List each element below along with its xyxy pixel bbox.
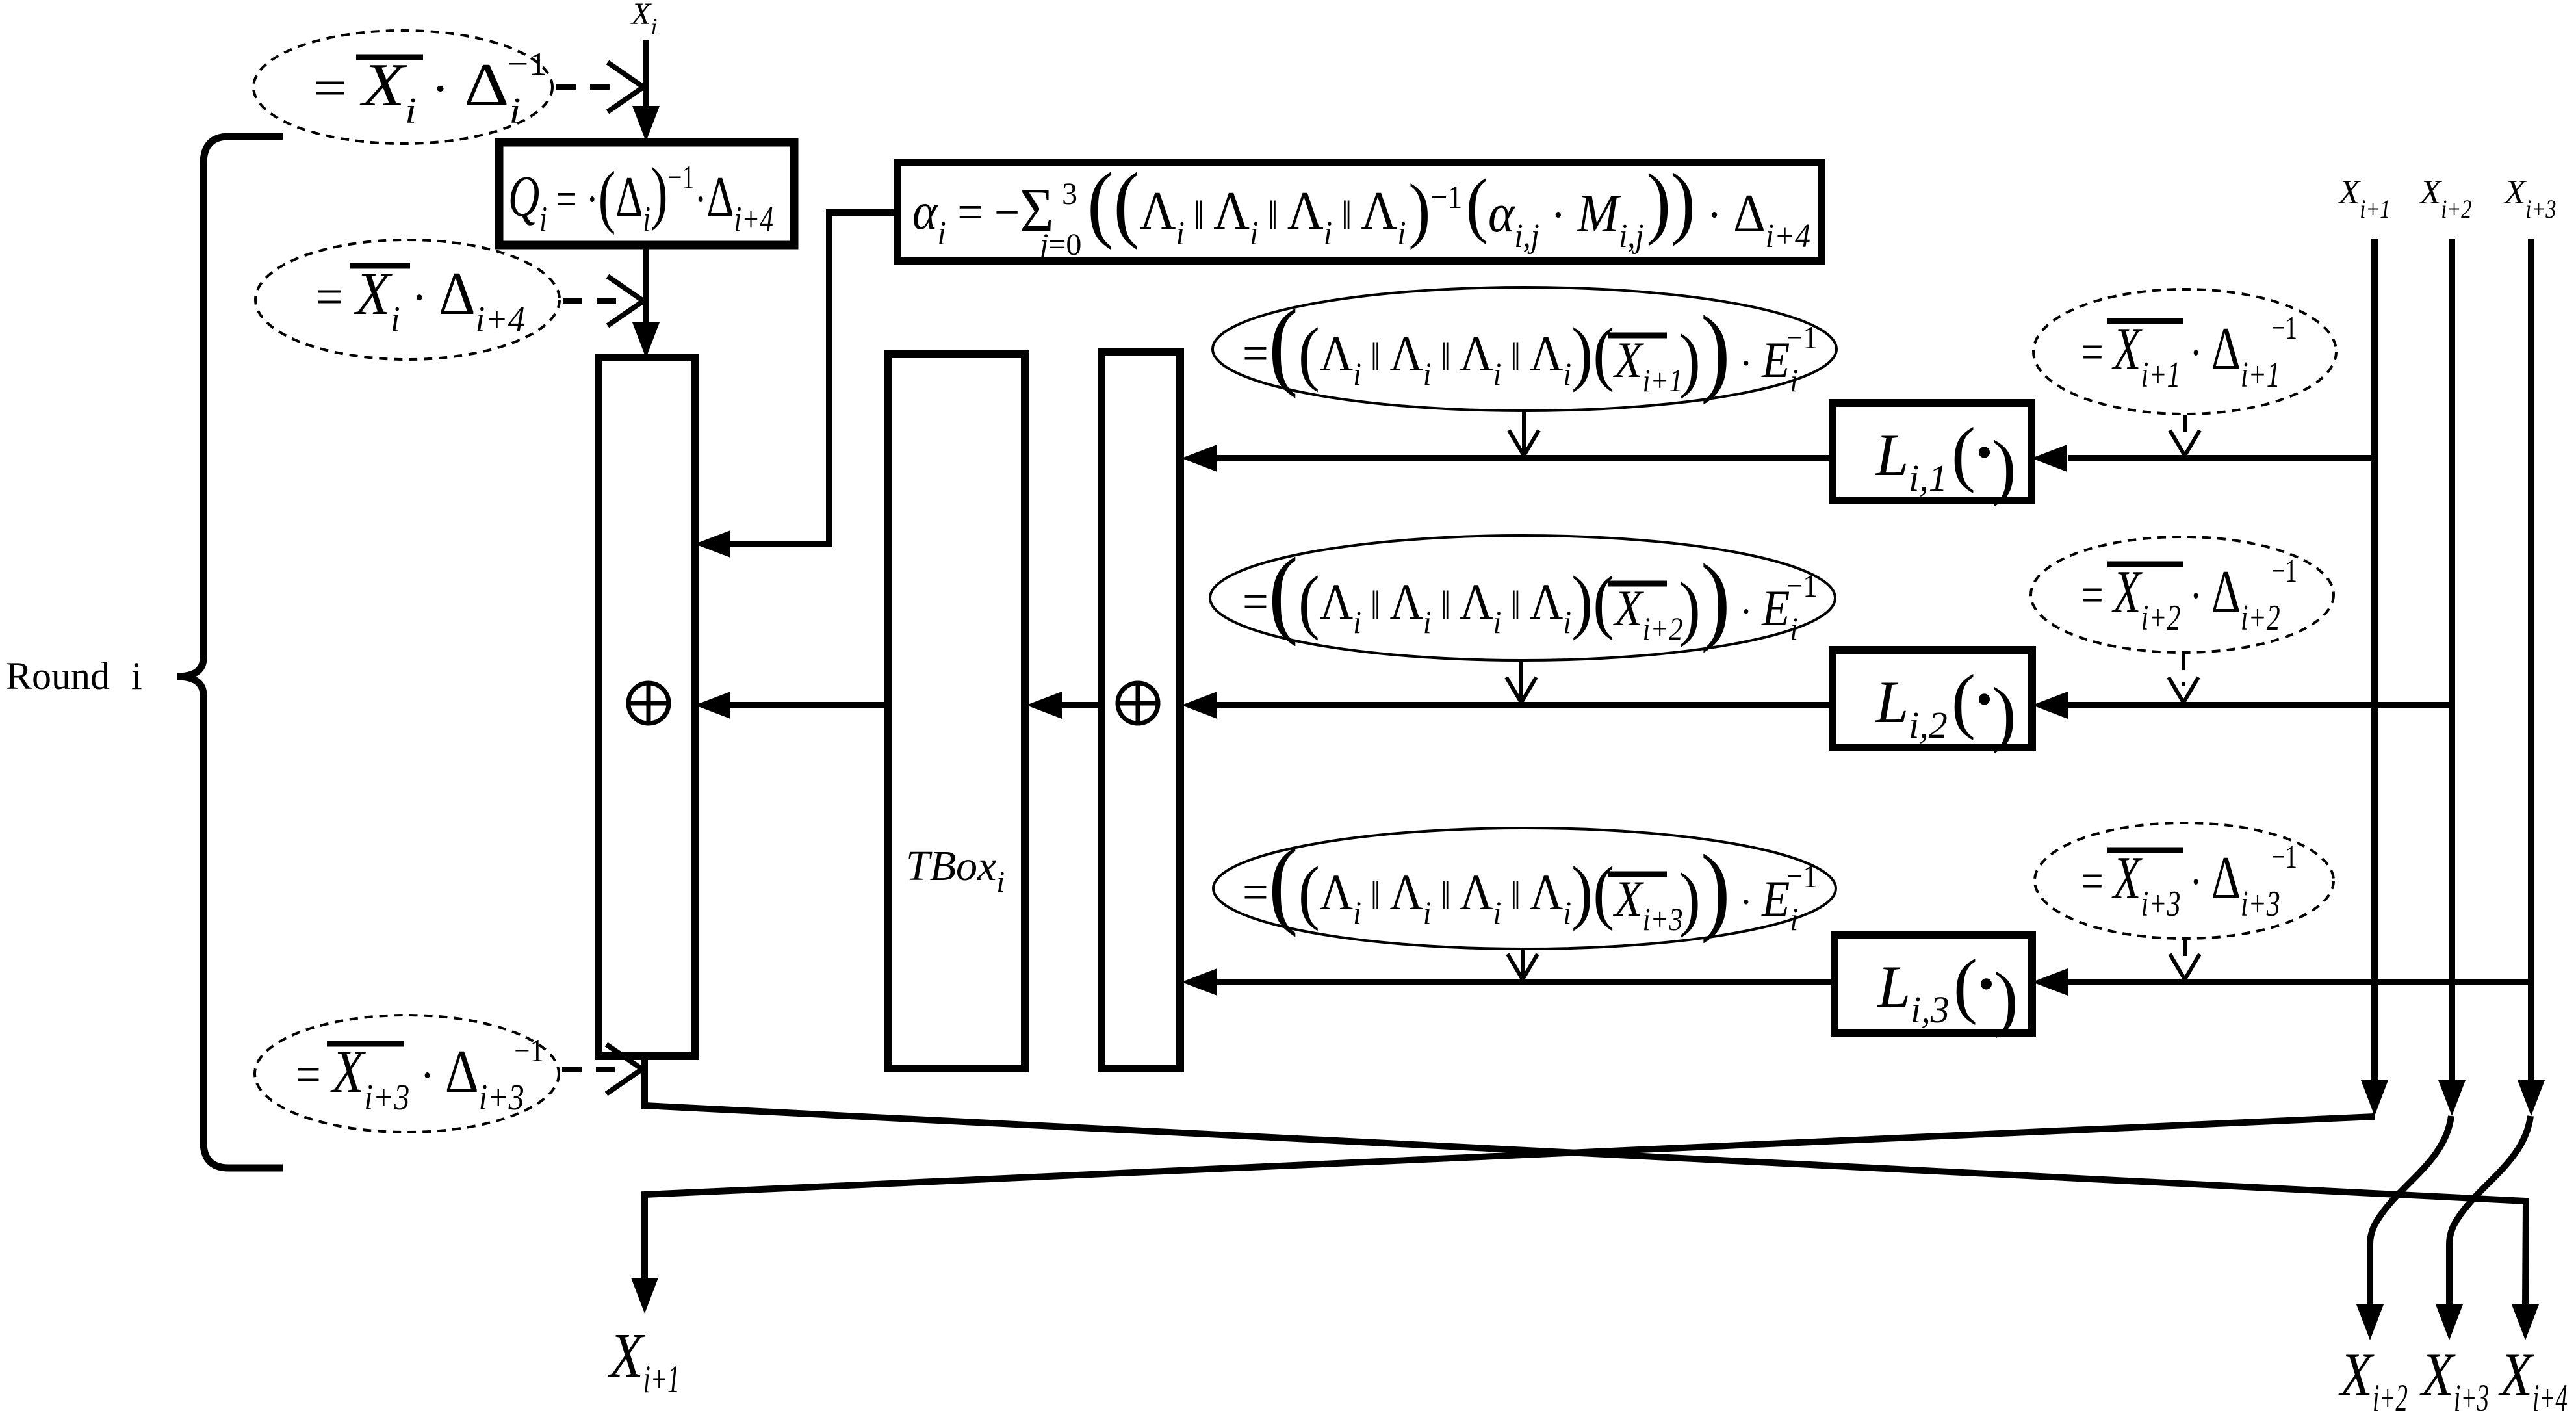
wire curve X_i+2 line to output <box>2370 1116 2451 1306</box>
XOR column 1 (left tall rectangle) <box>599 357 695 1056</box>
overline X in dashed right ellipse3 <box>2107 848 2183 853</box>
arrowhead X_i+3 vertical end <box>2518 1080 2545 1116</box>
dashed arrow left-ellipse2 to wire below Q <box>563 298 619 304</box>
wire curve X_i+3 line to output <box>2449 1116 2531 1306</box>
wire long diagonal XOR1 output to X_i+4 <box>645 1106 2526 1306</box>
arrowhead row3 into XOR2 <box>1181 968 1217 996</box>
small dashed arrow right-ellipse1 to row1 <box>2169 415 2200 979</box>
box L_i,3 <box>1835 935 2032 1033</box>
TBox_i (middle tall rectangle) <box>888 354 1025 1068</box>
small dashed arrow right-ellipse2 to row2 <box>2182 653 2185 686</box>
overline X in solid ellipse2 <box>1608 581 1667 587</box>
dashed arrow left-ellipse1 to X_i wire <box>556 62 643 1094</box>
wire Q box to XOR column 1 <box>643 245 649 325</box>
arrowhead X_i+2 vertical end <box>2438 1080 2466 1116</box>
svg-text:3: 3 <box>1062 177 1077 211</box>
overline X in dashed right ellipse1 <box>2107 318 2183 324</box>
dashed ellipse right 3 <box>2035 823 2334 939</box>
curly brace Round i <box>177 136 283 1168</box>
dashed ellipse left 3 <box>255 1015 559 1132</box>
small arrow solid-ellipse2 to row2 <box>1519 661 1523 701</box>
arrowhead row2 into L_i,2 <box>2032 692 2068 719</box>
dashed ellipse left 1 <box>253 31 552 144</box>
arrowhead row2 into XOR2 <box>1181 692 1217 719</box>
XOR symbol 2 (circle-plus in column 2) <box>1118 683 1158 723</box>
overline X in dashed right ellipse2 <box>2107 562 2183 567</box>
overline X in dashed left ellipse3 <box>327 1041 404 1047</box>
arrowhead X_i into Q box <box>632 106 660 142</box>
overline X in solid ellipse3 <box>1608 872 1667 877</box>
box alpha_i (annotation box) <box>897 162 1822 261</box>
arrowhead TBox into XOR1 <box>695 692 730 719</box>
arrowhead XOR2 into TBox <box>1026 692 1062 719</box>
dashed ellipse left 2 <box>255 240 560 359</box>
small dashed arrow right-ellipse3 to row3 <box>2183 939 2187 962</box>
box L_i,2 <box>1833 650 2032 747</box>
arrowhead row1 into XOR2 <box>1181 445 1217 472</box>
wire row3 X_i+3 line to L_i,3 <box>2068 979 2531 985</box>
small arrow solid-ellipse1 to row1 <box>1506 411 1539 979</box>
arrowhead alpha elbow into XOR1 <box>695 530 730 558</box>
arrowhead row3 into L_i,3 <box>2032 968 2068 996</box>
solid ellipse row3 annotation <box>1213 828 1836 949</box>
arrowhead Q box into XOR1 <box>632 322 660 358</box>
arrowhead X_i+1 vertical end <box>2361 1080 2388 1116</box>
XOR symbol 1 (circle-plus in column 1) <box>628 683 669 723</box>
dashed ellipse right 2 <box>2031 537 2334 653</box>
wire row3 L_i,3 to XOR2 <box>1216 979 1835 985</box>
wire X_i input down to Q box <box>643 40 649 110</box>
arrowhead output X_i+1 bottom-left <box>631 1278 658 1314</box>
overline X in dashed left ellipse1 <box>356 55 423 60</box>
arrowhead output X_i+2 <box>2356 1304 2384 1340</box>
wire row2 X_i+2 line to L_i,2 <box>2068 702 2452 708</box>
wire row1 L_i,1 to XOR2 <box>1216 455 1833 461</box>
wire elbow from alpha box into XOR column 1 <box>730 213 897 544</box>
svg-text:j=0: j=0 <box>1036 227 1081 262</box>
overline X in solid ellipse1 <box>1608 333 1667 339</box>
wire row2 L_i,2 to XOR2 <box>1216 702 1833 708</box>
box L_i,1 <box>1833 403 2031 500</box>
wire TBox to XOR1 row2 <box>730 702 888 708</box>
overline X in dashed left ellipse2 <box>350 263 410 269</box>
wire long diagonal X_i+1 line to bottom-left output <box>645 1117 2375 1279</box>
wire vertical X_i+2 <box>2449 239 2455 1082</box>
OVERLINES <box>327 57 2183 1044</box>
solid ellipse row2 annotation <box>1210 536 1835 660</box>
wire XOR2 to TBox row2 <box>1062 702 1101 708</box>
wire vertical X_i+1 <box>2371 239 2378 1082</box>
arrowhead output X_i+3 <box>2436 1304 2463 1340</box>
arrowhead row1 into L_i,1 <box>2031 445 2067 472</box>
XOR column 2 (right tall rectangle) <box>1101 352 1180 1068</box>
dashed arrow left-ellipse3 to stub below XOR1 <box>562 1067 617 1072</box>
small arrow solid-ellipse3 to row3 <box>1521 950 1525 977</box>
wire stub below XOR1 <box>641 1055 648 1109</box>
wire row1 X_i+1 line to L_i,1 <box>2068 455 2375 461</box>
arrowhead output X_i+4 <box>2512 1304 2539 1340</box>
dashed ellipse right 1 <box>2033 289 2336 414</box>
box Q_i (annotation box) <box>499 142 794 245</box>
wire vertical X_i+3 <box>2528 239 2534 1082</box>
solid ellipse row1 annotation <box>1213 287 1836 411</box>
